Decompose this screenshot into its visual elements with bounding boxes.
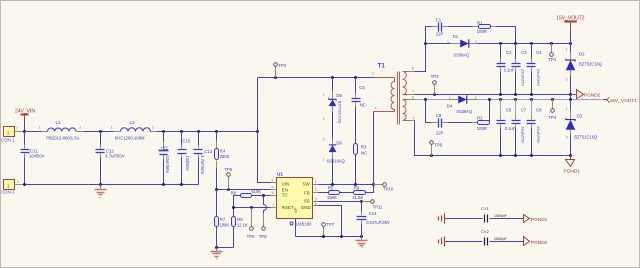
node C12 bottom <box>99 183 102 186</box>
svg-text:2: 2 <box>323 117 325 121</box>
electrolytic capacitor E1 <box>159 132 170 185</box>
node D3 bottom <box>569 154 572 157</box>
svg-text:104/50V: 104/50V <box>29 154 45 159</box>
node R2 top <box>488 98 491 101</box>
svg-text:R4: R4 <box>220 149 226 154</box>
power port PGND1 (down triangle) <box>563 156 580 175</box>
svg-text:TP1: TP1 <box>548 57 556 62</box>
svg-text:22uF/25V: 22uF/25V <box>536 69 541 87</box>
capacitor C11 <box>21 132 45 185</box>
capacitor C5 (NC) <box>352 78 366 144</box>
svg-text:1: 1 <box>323 158 325 162</box>
svg-text:C3: C3 <box>521 50 527 55</box>
wire earth to CY1 <box>448 218 483 220</box>
inductor L1 <box>39 120 84 140</box>
svg-text:7: 7 <box>272 203 274 207</box>
test point TP10 <box>374 183 394 192</box>
svg-text:CY2: CY2 <box>481 230 488 234</box>
wire CY2 to PGND2 <box>490 241 522 243</box>
svg-text:TP6: TP6 <box>224 167 232 172</box>
svg-text:SHC1260-100M: SHC1260-100M <box>115 135 146 140</box>
node E1 top <box>162 130 165 133</box>
svg-text:TP5: TP5 <box>434 143 442 148</box>
svg-text:TP3: TP3 <box>431 74 439 79</box>
svg-text:0.1uF: 0.1uF <box>505 126 516 131</box>
svg-text:C2: C2 <box>506 50 512 55</box>
svg-text:C7: C7 <box>521 108 527 113</box>
svg-text:R8: R8 <box>237 217 243 222</box>
node C8 top <box>530 98 533 101</box>
svg-text:7: 7 <box>412 90 414 94</box>
wire L1 to L2 <box>84 131 114 133</box>
power port 15V_VOUT2 <box>556 15 585 43</box>
zener diode D2 BZT52C16Q <box>566 44 602 95</box>
capacitor CY1 <box>481 207 507 222</box>
svg-text:TP2: TP2 <box>278 63 286 68</box>
test point TP3 <box>431 74 439 94</box>
svg-text:TP8: TP8 <box>247 234 255 239</box>
capacitor C3 <box>512 44 528 95</box>
node C4 top <box>530 42 533 45</box>
svg-text:15V_VOUT2: 15V_VOUT2 <box>556 15 585 21</box>
pin stubs <box>271 183 277 208</box>
svg-text:R5: R5 <box>328 185 334 190</box>
svg-text:TP9: TP9 <box>259 234 267 239</box>
node SW/T1 pin3 <box>372 183 375 186</box>
pin 9 marker + part name LM5180 <box>290 222 312 227</box>
wire TC pin stub <box>264 195 271 197</box>
T1 primary winding <box>391 78 394 112</box>
diode D4 SS38AQ <box>447 95 478 114</box>
svg-text:D6: D6 <box>336 140 342 145</box>
connector CON-1 (top) <box>1 126 24 142</box>
capacitor C14 <box>357 202 390 237</box>
wire U1 EP to ground row <box>295 219 297 237</box>
power port PGND2 (arrow, row 2) <box>522 237 548 246</box>
wire CY1 to PGND1 <box>490 218 522 220</box>
svg-text:C10: C10 <box>182 138 190 143</box>
svg-text:1: 1 <box>449 96 451 100</box>
svg-text:R2: R2 <box>477 116 483 121</box>
resistor R1 <box>473 20 516 43</box>
wire earth to CY2 <box>448 241 483 243</box>
capacitor C12 <box>96 132 125 185</box>
T1 secondary winding bottom <box>403 100 407 121</box>
test point TP6 <box>224 167 232 189</box>
svg-text:SS310AQ: SS310AQ <box>327 158 345 163</box>
test point TP2 <box>274 63 287 78</box>
zener diode D5 BZT52C12Q <box>323 78 343 139</box>
svg-text:5: 5 <box>413 116 415 120</box>
svg-text:2: 2 <box>323 137 325 141</box>
inductor L2 <box>111 120 157 140</box>
svg-text:1: 1 <box>16 126 18 130</box>
resistor R7 <box>215 190 230 248</box>
svg-text:158K: 158K <box>327 195 337 200</box>
capacitor CY2 <box>481 230 507 246</box>
wire SW row <box>319 184 374 186</box>
node C2 bottom <box>499 93 502 96</box>
svg-text:VIN: VIN <box>282 181 290 186</box>
svg-text:C1: C1 <box>436 17 442 22</box>
resistor R2 <box>472 100 490 131</box>
capacitor C6 <box>497 100 516 156</box>
wire EN row <box>217 189 271 191</box>
svg-text:C14: C14 <box>369 211 377 216</box>
svg-text:SS38AQ: SS38AQ <box>456 109 472 114</box>
wire T1 pin3 to SW <box>373 112 375 185</box>
node TP5 tap <box>430 154 433 157</box>
node C14/gnd <box>360 235 363 238</box>
wire T1 pin8 to D1 anode <box>415 44 426 72</box>
svg-text:R1: R1 <box>477 20 483 25</box>
T1 pin 2 stub <box>375 77 395 79</box>
svg-text:U1: U1 <box>277 171 283 176</box>
node C8 bottom <box>530 154 533 157</box>
svg-text:TC: TC <box>282 193 289 198</box>
svg-text:TP10: TP10 <box>383 187 394 192</box>
wire input rail top <box>25 131 42 133</box>
power port 15V_VOUT1 <box>604 98 638 105</box>
svg-text:PGND2: PGND2 <box>531 240 548 246</box>
test point TP8 <box>247 208 255 239</box>
node D1 anode <box>424 42 427 45</box>
svg-text:1: 1 <box>566 47 568 51</box>
svg-text:EP: EP <box>294 207 298 213</box>
svg-text:FB: FB <box>304 191 310 196</box>
ground (U1) <box>356 237 368 248</box>
resistor R4 <box>215 132 230 190</box>
svg-text:1000pF: 1000pF <box>494 237 508 241</box>
connector CON-1 (bottom) <box>1 180 24 195</box>
node VIN corner <box>256 130 259 133</box>
diode D1 SS38AQ <box>426 34 571 58</box>
svg-text:GND: GND <box>301 205 312 210</box>
svg-text:R6: R6 <box>231 191 237 196</box>
svg-text:1: 1 <box>315 180 317 184</box>
T1 core <box>398 72 400 125</box>
test point TP5 <box>430 141 443 156</box>
node TP1 tap <box>550 42 553 45</box>
test point TP7 <box>322 222 335 237</box>
earth symbol (row 2) <box>439 237 448 247</box>
capacitor C8 <box>527 100 543 156</box>
svg-text:+E1: +E1 <box>160 146 168 151</box>
node E1 bottom <box>162 183 165 186</box>
svg-text:C9: C9 <box>436 113 442 118</box>
resistor R9 <box>352 185 373 200</box>
svg-text:TP7: TP7 <box>326 222 334 227</box>
node snubber/C2 <box>499 42 502 45</box>
svg-text:D4: D4 <box>447 104 453 109</box>
svg-text:22P: 22P <box>436 32 444 37</box>
node TP2 tap <box>274 76 277 79</box>
svg-text:2: 2 <box>475 96 477 100</box>
wire stack link <box>570 95 572 100</box>
node VOUT2 corner <box>569 42 572 45</box>
node C10 top <box>180 130 183 133</box>
wire 24V_VIN drop <box>24 121 26 132</box>
svg-text:CY1: CY1 <box>481 207 488 211</box>
svg-text:100R: 100R <box>477 29 487 34</box>
T1 pin gray stubs + numbers <box>409 72 415 121</box>
svg-text:8: 8 <box>412 66 414 70</box>
node C4 bottom <box>530 93 533 96</box>
svg-text:1: 1 <box>447 40 449 44</box>
svg-text:BZT52C16Q: BZT52C16Q <box>574 134 597 139</box>
node C3 top <box>514 42 517 45</box>
power port PGND2 (arrow) <box>571 90 601 99</box>
svg-text:T1: T1 <box>378 63 386 70</box>
node R7/R8 bottom <box>215 246 218 249</box>
svg-text:22uF/25V: 22uF/25V <box>521 126 526 144</box>
test point TP4 <box>548 100 556 121</box>
svg-text:6: 6 <box>272 191 274 195</box>
node C5 top <box>354 76 357 79</box>
wire VIN top run to T1 pin2 <box>258 77 375 79</box>
svg-text:4.7uF/50V: 4.7uF/50V <box>105 154 125 159</box>
svg-text:NC: NC <box>360 102 366 107</box>
node EN/R4/R7 <box>215 188 218 191</box>
node C9 branch <box>424 98 427 101</box>
test point TP11 <box>362 200 384 210</box>
svg-text:1: 1 <box>7 131 10 136</box>
svg-text:22P: 22P <box>436 130 444 135</box>
svg-text:2: 2 <box>315 188 317 192</box>
wire input rail bottom <box>25 184 199 186</box>
svg-text:C6: C6 <box>506 108 512 113</box>
wire VIN vertical + pin stub <box>258 132 271 183</box>
node TC/TP9 <box>262 194 265 197</box>
svg-text:330K: 330K <box>220 154 230 159</box>
svg-text:RSET: RSET <box>282 205 294 210</box>
T1 pin 3 stub <box>374 111 395 113</box>
svg-text:22uF/25V: 22uF/25V <box>521 69 526 87</box>
capacitor C10 <box>178 132 191 185</box>
node C13 top <box>197 130 200 133</box>
svg-text:31.6K: 31.6K <box>352 195 363 200</box>
wire RSET row <box>234 207 271 209</box>
svg-text:C4: C4 <box>536 50 542 55</box>
node R4 top <box>215 130 218 133</box>
node C7 top <box>514 98 517 101</box>
svg-text:LM5180: LM5180 <box>296 222 312 227</box>
node C10 bottom <box>180 183 183 186</box>
power port 24V_VIN <box>15 109 35 121</box>
svg-text:D2: D2 <box>579 51 585 56</box>
node TP4 tap <box>551 98 554 101</box>
zener diode D3 BZT52C16Q <box>566 100 597 156</box>
capacitor C1 <box>432 17 473 36</box>
node D6/SW <box>331 183 334 186</box>
resistor R8 <box>217 208 248 248</box>
svg-text:1: 1 <box>111 126 113 130</box>
wire secondary return rail (pin7) <box>415 94 571 96</box>
wire GND pin 8 down <box>319 206 342 237</box>
capacitor C4 <box>527 44 543 95</box>
svg-text:1000pF: 1000pF <box>494 214 508 218</box>
svg-text:PGND1: PGND1 <box>531 217 548 223</box>
svg-text:TP4: TP4 <box>548 115 556 120</box>
test point TP1 <box>548 44 556 63</box>
svg-text:C8: C8 <box>536 108 542 113</box>
node pin8/gnd <box>340 235 343 238</box>
node C6 top <box>499 98 502 101</box>
svg-text:D1: D1 <box>453 34 459 39</box>
capacitor C7 <box>512 100 527 156</box>
node C6 bottom <box>499 154 502 157</box>
node D2 bottom <box>569 93 572 96</box>
svg-text:BZT52C16Q: BZT52C16Q <box>579 61 602 66</box>
svg-text:1: 1 <box>7 183 10 188</box>
resistor R5 <box>319 185 340 200</box>
node TP8 tap <box>250 206 253 209</box>
svg-text:2: 2 <box>475 40 477 44</box>
svg-text:2: 2 <box>566 135 568 139</box>
svg-text:D3: D3 <box>577 114 583 119</box>
resistor R3 (NC) <box>354 144 368 185</box>
svg-text:SS: SS <box>304 199 310 204</box>
svg-text:3: 3 <box>271 179 273 183</box>
node C3 bottom <box>514 93 517 96</box>
wire ground row <box>296 236 362 238</box>
capacitor C2 <box>497 44 515 95</box>
svg-text:0.047uF/25V: 0.047uF/25V <box>366 220 390 225</box>
wire T1 pin5 to PGND1 rail <box>415 121 571 156</box>
svg-text:L1: L1 <box>56 120 62 125</box>
wire R5-R9 <box>340 192 354 194</box>
T1 secondary winding top <box>403 72 407 95</box>
node R3/SW <box>354 183 357 186</box>
svg-text:TP11: TP11 <box>373 205 384 210</box>
ground (input) <box>95 185 107 198</box>
svg-text:1: 1 <box>566 107 568 111</box>
resistor R6 <box>231 189 264 208</box>
svg-text:6: 6 <box>412 95 414 99</box>
svg-text:0.1uF: 0.1uF <box>504 68 515 73</box>
svg-text:8: 8 <box>315 202 317 206</box>
ground (R7/R8) <box>211 248 223 259</box>
svg-text:CON-1: CON-1 <box>1 190 15 195</box>
svg-text:1: 1 <box>39 126 41 130</box>
svg-text:1: 1 <box>323 93 325 97</box>
svg-text:C5: C5 <box>359 85 365 90</box>
svg-text:1: 1 <box>17 180 19 184</box>
node TP3 tap <box>433 93 436 96</box>
wire VOUT1 rail (pin6) <box>415 99 604 101</box>
capacitor C13 <box>194 132 213 185</box>
test point TP9 (wire hop over RSET row) <box>259 196 267 239</box>
diode D6 SS310AQ <box>323 137 345 184</box>
svg-text:4: 4 <box>271 186 273 190</box>
svg-text:PGND1: PGND1 <box>563 169 580 175</box>
svg-text:L2: L2 <box>130 120 136 125</box>
node TP6 tap <box>227 188 230 191</box>
svg-text:104/50V: 104/50V <box>185 155 190 171</box>
node 24V_VIN junction <box>23 130 26 133</box>
svg-text:BZT52C12Q: BZT52C12Q <box>337 101 342 123</box>
node TP7/gnd <box>322 235 325 238</box>
svg-text:510K: 510K <box>251 189 261 194</box>
svg-text:2: 2 <box>372 72 374 76</box>
svg-text:15V_VOUT1: 15V_VOUT1 <box>610 98 638 104</box>
svg-text:R3: R3 <box>361 144 367 149</box>
capacitor C9 <box>426 100 472 136</box>
svg-text:33uF/50V: 33uF/50V <box>165 155 170 173</box>
svg-text:2: 2 <box>79 126 81 130</box>
transformer T1 <box>372 63 415 125</box>
svg-text:100K: 100K <box>219 222 229 227</box>
IC U1 LM5180 <box>271 171 319 218</box>
node D5 top <box>331 76 334 79</box>
svg-text:C13: C13 <box>204 149 212 154</box>
svg-text:4.7uF/50V: 4.7uF/50V <box>200 155 205 174</box>
wire VIN riser <box>257 78 259 132</box>
power port PGND1 (arrow, row 1) <box>522 215 548 224</box>
svg-text:2: 2 <box>566 78 568 82</box>
node C11 bottom <box>23 183 26 186</box>
wire SS row <box>319 201 362 203</box>
svg-text:12.1K: 12.1K <box>237 222 248 227</box>
svg-text:22uF/25V: 22uF/25V <box>536 126 541 144</box>
svg-text:100R: 100R <box>477 126 487 131</box>
wire VIN rail to U1 corner <box>157 131 258 133</box>
svg-text:SS38AQ: SS38AQ <box>453 53 469 58</box>
svg-text:CON-1: CON-1 <box>1 137 15 142</box>
node D3 top <box>569 98 572 101</box>
svg-text:PB2012-800/1.5A: PB2012-800/1.5A <box>46 135 79 140</box>
svg-text:PGND2: PGND2 <box>584 92 601 98</box>
svg-text:SW: SW <box>303 181 311 186</box>
svg-text:R7: R7 <box>220 217 226 222</box>
node C12 tap <box>99 130 102 133</box>
svg-text:D5: D5 <box>336 93 342 98</box>
node SS/C14/TP11 <box>360 200 363 203</box>
svg-text:R9: R9 <box>354 185 360 190</box>
wire snubber branch up <box>426 27 432 44</box>
svg-text:2: 2 <box>152 126 154 130</box>
node C7 bottom <box>514 154 517 157</box>
earth symbol (row 1) <box>439 214 448 224</box>
svg-text:3: 3 <box>375 107 377 111</box>
node RSET/R6/R8 <box>232 206 235 209</box>
svg-text:NC: NC <box>361 150 367 155</box>
